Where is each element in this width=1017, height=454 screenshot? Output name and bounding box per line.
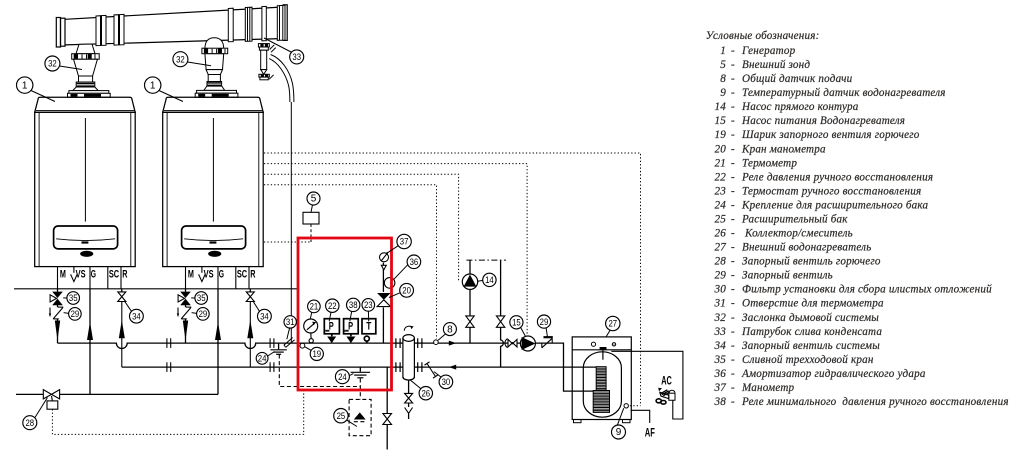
svg-text:-: - (731, 368, 735, 380)
svg-text:5: 5 (311, 194, 317, 205)
svg-text:19: 19 (715, 129, 727, 141)
svg-text:Реле давления ручного восстано: Реле давления ручного восстановления (741, 171, 933, 183)
svg-text:-: - (731, 382, 735, 394)
svg-text:26: 26 (421, 388, 430, 399)
svg-text:34: 34 (260, 311, 269, 322)
svg-text:38: 38 (714, 396, 727, 408)
svg-text:Отверстие для термометра: Отверстие для термометра (742, 298, 884, 310)
svg-text:23: 23 (364, 299, 373, 310)
svg-text:35: 35 (197, 293, 206, 304)
svg-text:P: P (329, 320, 334, 332)
svg-text:Насос прямого контура: Насос прямого контура (741, 101, 859, 113)
svg-text:-: - (731, 143, 735, 155)
svg-text:Крепление для расширительного: Крепление для расширительного бака (741, 199, 928, 211)
svg-text:Реле минимального давления ру: Реле минимального давления ручного восст… (741, 396, 1009, 408)
svg-text:R: R (250, 268, 255, 281)
svg-text:1: 1 (720, 45, 726, 57)
svg-text:25: 25 (337, 410, 346, 421)
svg-text:Насос питания Водонагревателя: Насос питания Водонагревателя (741, 115, 905, 127)
svg-text:15: 15 (512, 317, 521, 328)
svg-text:G: G (91, 268, 96, 280)
svg-text:Шарик запорного вентиля горюче: Шарик запорного вентиля горючего (741, 129, 920, 141)
svg-text:29: 29 (199, 308, 208, 319)
svg-text:1: 1 (22, 80, 28, 91)
svg-text:37: 37 (714, 382, 727, 394)
svg-text:27: 27 (608, 318, 617, 329)
svg-text:-: - (731, 298, 735, 310)
svg-text:31: 31 (286, 316, 295, 327)
svg-text:Фильтр установки для сбора или: Фильтр установки для сбора илистых отлож… (742, 284, 992, 296)
svg-text:-: - (731, 73, 735, 85)
svg-text:30: 30 (714, 284, 727, 296)
svg-text:24: 24 (338, 371, 347, 382)
svg-text:38: 38 (349, 299, 358, 310)
svg-text:AF: AF (645, 427, 655, 440)
svg-text:22: 22 (715, 171, 727, 183)
svg-text:T: T (366, 320, 371, 332)
svg-text:-: - (731, 340, 735, 352)
svg-text:SC: SC (109, 268, 119, 281)
svg-text:P: P (348, 320, 353, 332)
svg-text:Сливной трехходовой кран: Сливной трехходовой кран (742, 354, 874, 366)
svg-text:19: 19 (312, 348, 321, 359)
svg-text:-: - (731, 59, 735, 71)
svg-text:-: - (731, 256, 735, 268)
svg-text:Генератор: Генератор (741, 45, 796, 57)
svg-text:Термометр: Термометр (742, 157, 797, 169)
svg-text:20: 20 (715, 143, 727, 155)
svg-text:8: 8 (447, 324, 453, 335)
svg-text:G: G (219, 268, 224, 280)
svg-text:20: 20 (402, 285, 411, 296)
svg-text:33: 33 (714, 326, 727, 338)
svg-text:28: 28 (25, 417, 34, 428)
svg-text:-: - (731, 185, 735, 197)
svg-text:21: 21 (310, 301, 319, 312)
svg-text:-: - (731, 228, 735, 240)
svg-text:R: R (122, 268, 127, 281)
svg-text:32: 32 (176, 54, 185, 65)
svg-text:30: 30 (442, 376, 451, 387)
svg-text:-: - (731, 101, 735, 113)
svg-text:35: 35 (69, 293, 78, 304)
svg-text:9: 9 (720, 87, 726, 99)
svg-text:Расширительный бак: Расширительный бак (741, 214, 848, 226)
svg-text:29: 29 (715, 270, 727, 282)
svg-text:22: 22 (328, 300, 337, 311)
svg-text:Запорный вентиль горючего: Запорный вентиль горючего (742, 256, 881, 268)
svg-text:Амортизатор гидравлического уд: Амортизатор гидравлического удара (741, 368, 926, 380)
svg-text:Заслонка дымовой системы: Заслонка дымовой системы (742, 312, 879, 324)
svg-text:9: 9 (616, 427, 622, 438)
svg-text:25: 25 (715, 214, 727, 226)
svg-text:27: 27 (715, 242, 727, 254)
svg-text:32: 32 (714, 312, 727, 324)
svg-text:Условные обозначения:: Условные обозначения: (706, 30, 820, 42)
svg-text:Термостат ручного восстановлен: Термостат ручного восстановления (742, 185, 921, 197)
svg-text:-: - (731, 284, 735, 296)
svg-text:28: 28 (715, 256, 727, 268)
svg-text:-: - (731, 157, 735, 169)
svg-text:-: - (731, 214, 735, 226)
svg-text:24: 24 (715, 199, 727, 211)
svg-text:Запорный вентиль системы: Запорный вентиль системы (742, 340, 880, 352)
svg-text:29: 29 (540, 316, 549, 327)
svg-text:32: 32 (48, 58, 57, 69)
svg-text:Патрубок слива конденсата: Патрубок слива конденсата (741, 326, 882, 338)
svg-text:29: 29 (71, 308, 80, 319)
svg-text:Внешний зонд: Внешний зонд (742, 59, 810, 71)
svg-text:Общий датчик подачи: Общий датчик подачи (742, 73, 853, 85)
svg-text:Запорный вентиль: Запорный вентиль (742, 270, 833, 282)
svg-text:-: - (731, 242, 735, 254)
svg-text:-: - (731, 87, 735, 99)
svg-text:-: - (731, 199, 735, 211)
svg-text:Температурный датчик водонагре: Температурный датчик водонагревателя (742, 87, 946, 99)
svg-text:-: - (731, 312, 735, 324)
svg-text:36: 36 (714, 368, 727, 380)
svg-text:VS: VS (76, 268, 86, 281)
svg-text:34: 34 (132, 311, 141, 322)
svg-text:21: 21 (715, 157, 727, 169)
svg-text:36: 36 (410, 256, 419, 267)
svg-text:23: 23 (715, 185, 727, 197)
svg-text:34: 34 (714, 340, 727, 352)
svg-text:37: 37 (400, 236, 409, 247)
svg-text:24: 24 (258, 353, 267, 364)
svg-text:Манометр: Манометр (741, 382, 795, 394)
svg-text:31: 31 (714, 298, 727, 310)
svg-text:-: - (731, 270, 735, 282)
svg-text:15: 15 (715, 115, 727, 127)
svg-text:-: - (731, 115, 735, 127)
svg-text:VS: VS (204, 268, 214, 281)
svg-text:-: - (731, 326, 735, 338)
svg-text:AC: AC (661, 375, 672, 388)
svg-text:5: 5 (720, 59, 726, 71)
svg-text:35: 35 (714, 354, 727, 366)
svg-text:1: 1 (150, 80, 156, 91)
svg-text:M: M (60, 268, 66, 281)
svg-text:Внешний водонагреватель: Внешний водонагреватель (742, 242, 871, 254)
svg-text:-: - (731, 396, 735, 408)
svg-text:Кран манометра: Кран манометра (741, 143, 826, 155)
svg-text:-: - (731, 129, 735, 141)
svg-text:Коллектор/смеситель: Коллектор/смеситель (742, 228, 853, 240)
svg-text:26: 26 (715, 228, 727, 240)
svg-text:14: 14 (485, 274, 494, 285)
svg-text:8: 8 (720, 73, 726, 85)
svg-text:SC: SC (237, 268, 247, 281)
svg-text:M: M (188, 268, 194, 281)
svg-text:-: - (731, 171, 735, 183)
svg-text:33: 33 (292, 51, 301, 62)
svg-text:14: 14 (715, 101, 727, 113)
svg-text:-: - (731, 45, 735, 57)
svg-text:-: - (731, 354, 735, 366)
